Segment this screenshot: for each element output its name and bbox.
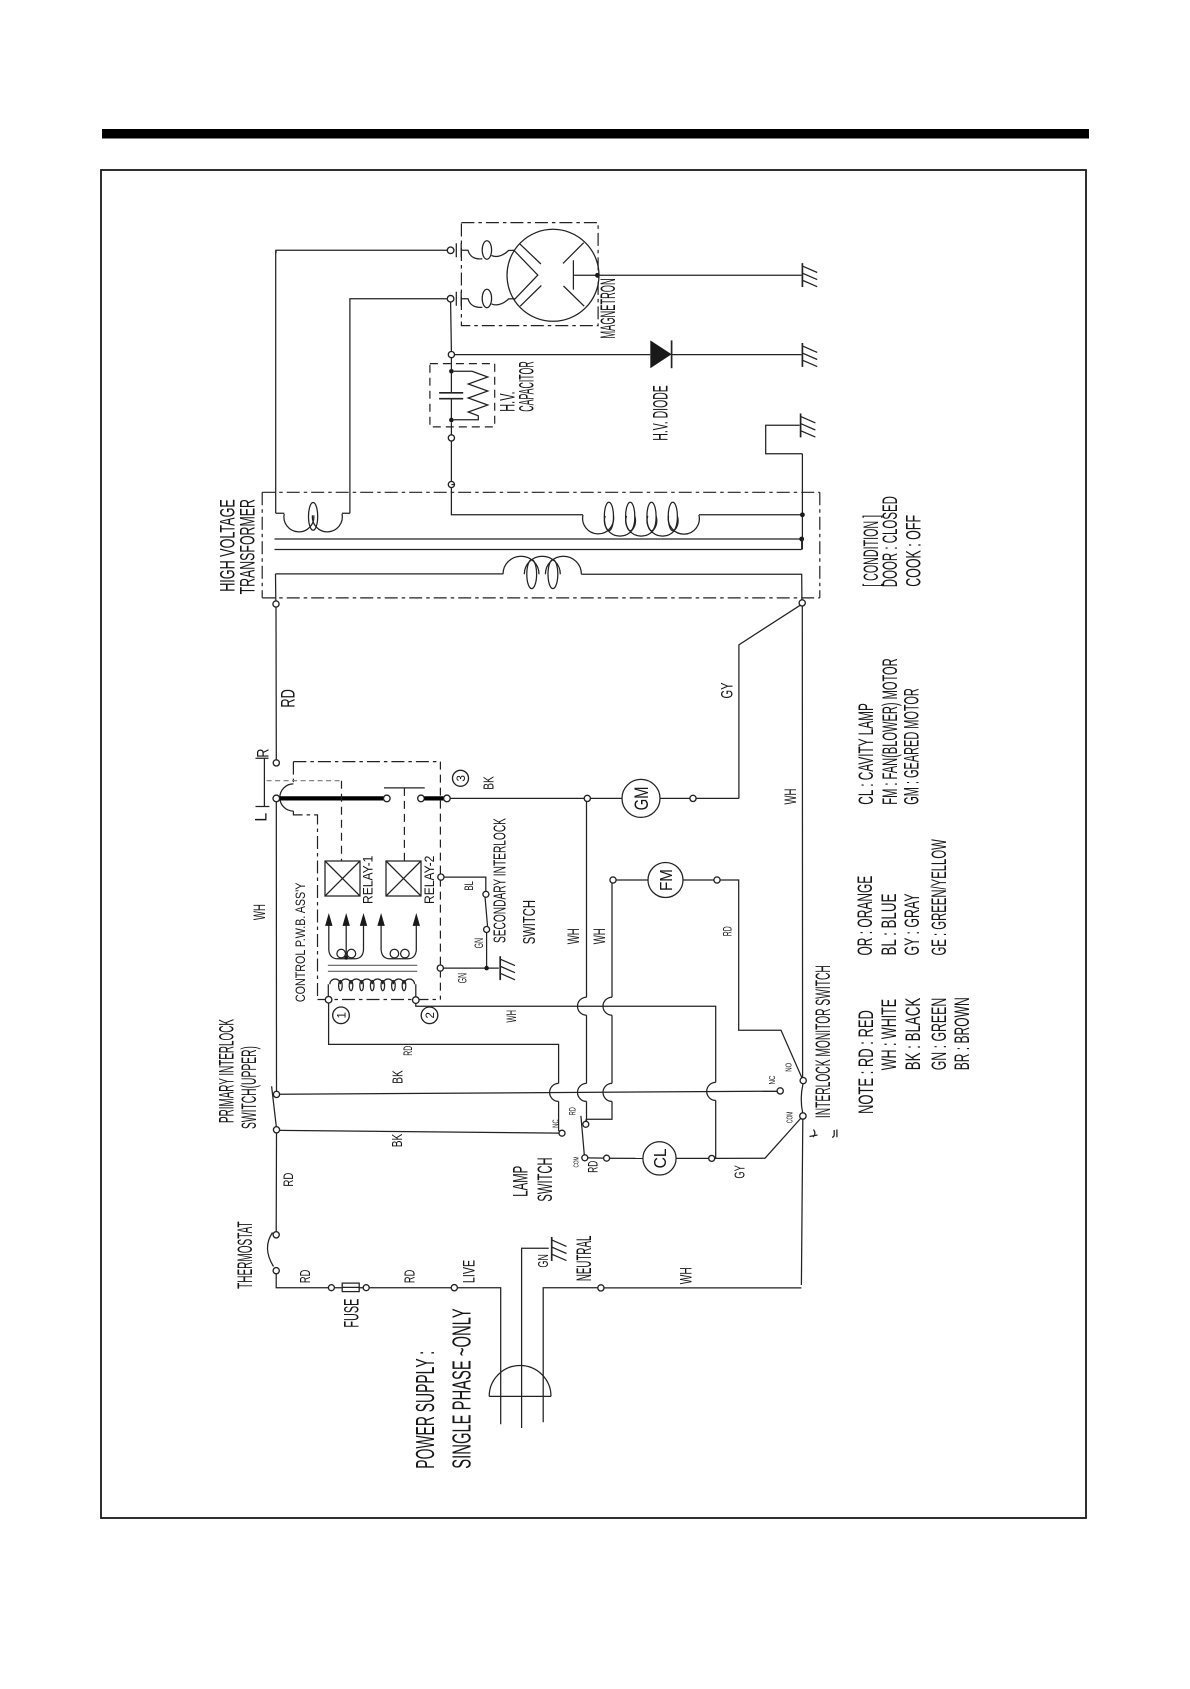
FM motor terminals and body — [610, 877, 616, 883]
svg-text:H.V. DIODE: H.V. DIODE — [649, 385, 673, 440]
magnetron cathode bar — [573, 260, 595, 289]
wire FM right to monitor NO — [720, 880, 802, 1078]
node circled 3 — [453, 770, 469, 786]
relay-1 fixed contact bar — [384, 787, 425, 789]
svg-text:CL : CAVITY LAMP: CL : CAVITY LAMP — [855, 703, 878, 805]
wire NEUTRAL to bus — [604, 1287, 801, 1289]
interlock monitor switch NC terminal — [777, 1088, 783, 1094]
terminal at transformer top — [448, 481, 454, 487]
svg-text:RD: RD — [278, 689, 299, 707]
secondary interlock switch S2 contacts — [483, 891, 489, 897]
wire CL to monitor COM — [715, 1119, 801, 1159]
svg-text:CL: CL — [650, 1148, 670, 1168]
svg-text:PRIMARY INTERLOCK: PRIMARY INTERLOCK — [215, 1019, 238, 1123]
svg-text:BK : BLACK: BK : BLACK — [901, 998, 925, 1071]
svg-text:SINGLE PHASE ~ONLY: SINGLE PHASE ~ONLY — [448, 1308, 476, 1468]
svg-text:FM : FAN(BLOWER) MOTOR: FM : FAN(BLOWER) MOTOR — [878, 658, 902, 804]
svg-text:OR : ORANGE: OR : ORANGE — [853, 876, 876, 956]
svg-text:RD: RD — [587, 1161, 602, 1173]
magnetron U1 dashed enclosure — [461, 223, 598, 326]
svg-text:WH: WH — [250, 904, 268, 920]
wire H.V. diode anode line — [455, 354, 651, 356]
transformer bottom-right terminal — [799, 600, 805, 606]
svg-text:SECONDARY INTERLOCK: SECONDARY INTERLOCK — [491, 818, 511, 943]
svg-text:FUSE: FUSE — [340, 1299, 364, 1328]
wire L contact down to primary interlock — [275, 802, 277, 1092]
svg-text:GY : GRAY: GY : GRAY — [899, 893, 923, 955]
thermostat lower terminal — [273, 1268, 279, 1274]
svg-text:CONTROL P.W.B. ASS'Y: CONTROL P.W.B. ASS'Y — [293, 883, 308, 1003]
control P.W.B. ass'y dash-dot enclosure with notch — [293, 762, 440, 1000]
power cord plug dome — [489, 1366, 551, 1397]
svg-text:COOK : OFF: COOK : OFF — [901, 515, 925, 587]
fuse F1 body — [342, 1283, 359, 1292]
svg-text:GM: GM — [631, 786, 652, 810]
terminal 2 — [413, 997, 420, 1004]
chassis ground G2 — [801, 343, 803, 367]
svg-text:BK: BK — [479, 776, 497, 790]
relay driver group 1 coil loops — [329, 950, 364, 959]
svg-text:GN: GN — [535, 1254, 552, 1267]
svg-text:RD: RD — [297, 1270, 314, 1283]
relay-2 contact terminals and blade — [418, 795, 425, 802]
power cord NEUTRAL conductor — [543, 1288, 598, 1423]
svg-text:INTERLOCK MONITOR SWITCH: INTERLOCK MONITOR SWITCH — [811, 965, 835, 1118]
wire chassis jog to ground G3 — [766, 425, 803, 453]
wire BK lower contact to lamp NC — [280, 1130, 559, 1133]
wire filament lead 1 (top terminal to transformer) — [276, 250, 448, 513]
relay RELAY-2 coil box — [386, 861, 421, 896]
svg-text:NO: NO — [784, 1063, 794, 1072]
dashed lead to relay-1 — [341, 781, 343, 861]
control transformer isolation lines — [328, 965, 417, 971]
wire diode cathode to ground — [672, 354, 802, 356]
capacitor C1 plates — [439, 393, 463, 399]
lamp switch blade — [581, 1116, 584, 1155]
svg-text:RELAY-2: RELAY-2 — [421, 856, 437, 904]
wire RD primary interlock to thermostat — [275, 1133, 277, 1232]
wire GM right to GY branch — [696, 797, 739, 799]
svg-text:RD: RD — [567, 1107, 578, 1115]
chassis ground G4 — [499, 956, 501, 980]
relay contact end terminal — [384, 795, 391, 802]
thermostat TH1 upper terminal — [273, 1232, 279, 1238]
magnetron filter terminal FB (bottom) — [447, 295, 454, 302]
relay driver group 2 arrows — [381, 925, 416, 950]
primary interlock switch lower contact — [273, 1127, 279, 1133]
svg-text:DOOR : CLOSED: DOOR : CLOSED — [878, 496, 902, 587]
filter choke coil FB — [461, 299, 482, 308]
filter choke coil FA — [461, 250, 482, 259]
svg-text:NEUTRAL: NEUTRAL — [573, 1236, 596, 1281]
svg-text:GE : GREEN/YELLOW: GE : GREEN/YELLOW — [927, 839, 951, 955]
relay driver group 1 arrows — [329, 925, 364, 957]
lamp switch NC terminal — [559, 1130, 565, 1136]
terminal before CL — [604, 1155, 610, 1161]
svg-text:SWITCH(UPPER): SWITCH(UPPER) — [237, 1046, 261, 1129]
magnetron antenna output junction — [595, 273, 600, 278]
terminal GM right — [690, 795, 696, 801]
terminal 1 — [325, 996, 332, 1003]
node capacitor bottom — [449, 418, 454, 423]
top title bar — [102, 129, 1089, 139]
svg-text:SWITCH: SWITCH — [533, 1157, 557, 1201]
svg-text:WH: WH — [590, 928, 608, 944]
svg-text:RELAY-1: RELAY-1 — [360, 856, 376, 904]
wire WH vertical B (GM junction to lamp switch) with hops — [586, 802, 588, 1122]
circled 2 — [421, 1007, 438, 1024]
wire capacitor bottom to terminal — [450, 422, 452, 435]
thermostat blade arc — [267, 1233, 273, 1267]
svg-text:TRANSFORMER: TRANSFORMER — [235, 499, 259, 594]
svg-text:GY: GY — [718, 682, 737, 698]
node GN/ground junction — [484, 966, 489, 971]
dashed linkage line over contact — [267, 780, 342, 782]
svg-text:WH : WHITE: WH : WHITE — [876, 999, 900, 1070]
chassis ground G5 — [551, 1237, 553, 1261]
transformer core lines — [275, 539, 802, 550]
chassis ground G1 — [801, 263, 803, 287]
high voltage transformer T1 dash-dot enclosure — [262, 492, 820, 598]
svg-text:RD: RD — [402, 1046, 415, 1056]
magnetron anode X arms — [514, 243, 584, 307]
relay RELAY-1 coil box — [325, 861, 360, 896]
node core/bus — [799, 537, 804, 542]
tiny annotation marks — [810, 1130, 837, 1138]
dashed lead to relay-2 — [403, 788, 405, 861]
svg-text:WH: WH — [781, 789, 799, 805]
fuse F1 terminals — [328, 1285, 334, 1291]
transformer filament winding (2 turns) — [276, 512, 350, 514]
wire filament lead 2 (bottom terminal to transformer) — [350, 299, 447, 514]
svg-text:WH: WH — [505, 1010, 520, 1022]
interlock monitor switch NO terminal — [800, 1078, 806, 1084]
GN terminal on box edge — [437, 965, 443, 971]
svg-text:1: 1 — [337, 1012, 349, 1018]
svg-text:MAGNETRON: MAGNETRON — [597, 278, 620, 338]
wire WH main bus (right side) — [801, 454, 802, 1285]
CL right terminal — [709, 1155, 715, 1161]
svg-text:BK: BK — [388, 1133, 406, 1147]
wire RD transformer to relay contact — [275, 607, 277, 760]
wire LIVE to cord — [457, 1288, 500, 1425]
svg-text:R: R — [255, 748, 273, 757]
wire relay contact to GM line — [450, 797, 584, 799]
transformer secondary HV winding (5 turns) — [451, 485, 583, 515]
relay driver group 2 coil loops — [381, 950, 416, 959]
svg-text:NC: NC — [767, 1075, 777, 1085]
chassis ground G3 — [800, 414, 802, 438]
R terminal of relay contact — [273, 760, 279, 766]
svg-text:THERMOSTAT: THERMOSTAT — [234, 1221, 257, 1289]
svg-text:2: 2 — [425, 1012, 437, 1018]
wire fuse to LIVE — [369, 1287, 451, 1289]
svg-text:BK: BK — [389, 1070, 407, 1084]
svg-text:RD: RD — [280, 1172, 296, 1186]
svg-text:WH: WH — [564, 928, 582, 944]
svg-text:POWER SUPPLY :: POWER SUPPLY : — [411, 1351, 440, 1469]
node capacitor/diode junction — [448, 352, 454, 358]
wire magnetron bottom terminal down to capacitor node — [450, 302, 453, 352]
interlock monitor switch COM terminal — [800, 1113, 806, 1119]
svg-text:GN: GN — [473, 938, 486, 948]
monitor switch blade — [801, 1084, 803, 1113]
feedthrough capacitor plates FB — [456, 292, 461, 306]
terminal GM left junction — [584, 795, 590, 801]
NEUTRAL terminal — [598, 1285, 604, 1291]
svg-text:COM: COM — [572, 1157, 580, 1168]
svg-text:WH: WH — [676, 1267, 695, 1284]
svg-text:LAMP: LAMP — [509, 1166, 533, 1197]
wire BK upper NC line to monitor switch — [280, 1091, 778, 1094]
svg-text:CAPACITOR: CAPACITOR — [515, 361, 538, 411]
wire 2 terminal to WH line L2 — [416, 1003, 716, 1158]
svg-text:NOTE : RD : RED: NOTE : RD : RED — [854, 1010, 878, 1114]
circled 1 — [333, 1007, 350, 1024]
power cord GN conductor — [522, 1248, 549, 1428]
wire terminal to transformer secondary terminal — [450, 441, 452, 481]
wire junction into capacitor box — [450, 358, 452, 370]
wire primary return to right terminal — [581, 574, 802, 600]
node secondary/bus — [800, 512, 805, 517]
LIVE terminal — [451, 1285, 457, 1291]
svg-text:NC: NC — [550, 1119, 560, 1127]
control transformer primary coil — [328, 984, 416, 997]
wire thermostat to fuse — [276, 1274, 328, 1288]
svg-text:FM: FM — [656, 869, 677, 891]
svg-text:GY: GY — [731, 1165, 748, 1179]
H.V. capacitor C1 dashed box — [430, 364, 495, 427]
wire magnetron output to chassis ground — [599, 274, 802, 276]
primary interlock switch S1 upper contact — [273, 1091, 279, 1097]
svg-text:BL: BL — [464, 881, 477, 891]
H.V. diode D1 — [650, 340, 671, 368]
svg-text:RD: RD — [401, 1270, 418, 1283]
svg-text:GN : GREEN: GN : GREEN — [927, 998, 951, 1071]
wire primary left to bottom-left terminal — [275, 574, 277, 601]
svg-text:BL : BLUE: BL : BLUE — [877, 894, 901, 956]
border frame — [101, 170, 1086, 1518]
svg-text:RD: RD — [722, 926, 735, 936]
svg-text:L: L — [251, 813, 270, 822]
wire GN terminal to ground node — [443, 967, 498, 969]
lamp switch COM terminal — [582, 1155, 588, 1161]
wire to secondary interlock switch — [444, 877, 486, 891]
svg-text:GN: GN — [457, 973, 470, 983]
magnetron filter terminal FA (top) — [447, 247, 454, 254]
lamp switch NO(RD) terminal — [583, 1121, 589, 1127]
svg-text:GM : GEARED MOTOR: GM : GEARED MOTOR — [900, 688, 924, 805]
transformer primary winding (3 turns) — [276, 573, 504, 575]
svg-text:BR : BROWN: BR : BROWN — [951, 997, 974, 1070]
svg-text:LIVE: LIVE — [460, 1260, 479, 1283]
node capacitor top — [449, 369, 454, 374]
svg-text:3: 3 — [456, 775, 468, 781]
wire RD from terminal 1 — [329, 1003, 561, 1132]
svg-text:SWITCH: SWITCH — [519, 900, 539, 944]
wire secondary output to bus — [699, 514, 803, 516]
secondary interlock terminal on box edge — [438, 874, 444, 880]
wire GY diagonal transformer to GM branch — [739, 605, 800, 798]
wire COM to terminal — [588, 1157, 604, 1159]
svg-text:COM: COM — [786, 1111, 795, 1123]
magnetron U1 body circle — [507, 229, 599, 321]
GM motor — [590, 797, 622, 799]
wire switch to GN node — [486, 933, 488, 969]
feedthrough capacitor plates FA — [456, 243, 461, 257]
primary interlock switch blade — [272, 1086, 277, 1126]
wire WH vertical C (FM left down to lamp switch) with hops — [586, 883, 612, 1121]
secondary interlock switch blade — [485, 897, 488, 928]
relay common contact terminal — [273, 795, 280, 802]
terminal below capacitor — [448, 435, 454, 441]
relay contact blade (thick) — [280, 796, 384, 800]
transformer bottom-left terminal — [273, 601, 279, 607]
bleed resistor R1 zigzag — [454, 371, 488, 420]
CL cavity lamp — [610, 1157, 643, 1159]
